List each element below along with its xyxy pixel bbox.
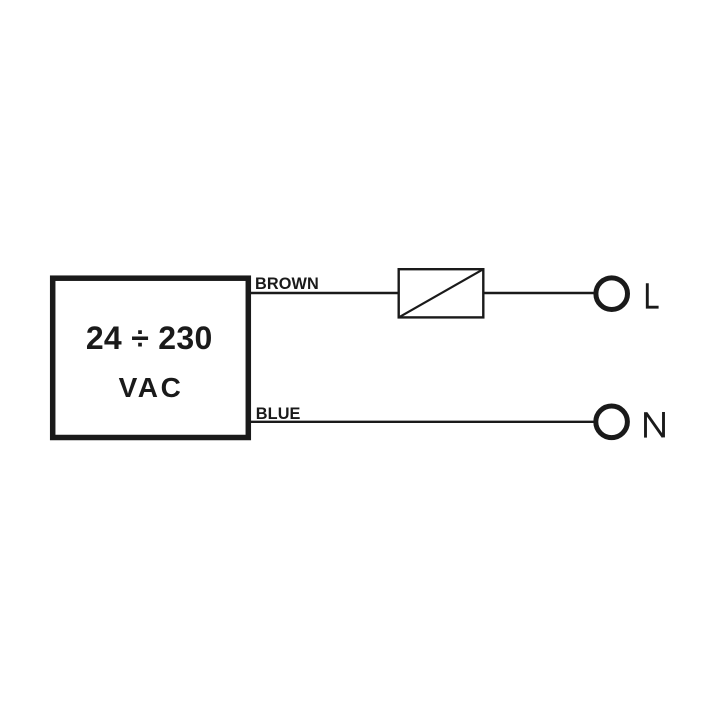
svg-text:BLUE: BLUE	[256, 405, 301, 423]
terminal N	[596, 406, 628, 438]
svg-text:24 ÷ 230: 24 ÷ 230	[86, 320, 213, 356]
terminal L	[596, 278, 628, 310]
wire blue: box to terminal N	[251, 421, 596, 423]
svg-text:BROWN: BROWN	[255, 275, 319, 293]
label N	[646, 412, 664, 438]
power supply box 24÷230 VAC	[53, 278, 249, 437]
fuse F1 (rectangle with diagonal)	[399, 269, 484, 317]
wire brown: box to fuse	[251, 292, 399, 294]
label L	[647, 283, 658, 307]
svg-text:VAC: VAC	[119, 372, 184, 403]
wire brown: fuse to terminal L	[485, 292, 596, 294]
